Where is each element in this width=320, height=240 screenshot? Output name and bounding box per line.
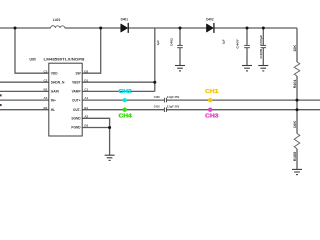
svg-text:B2: B2 xyxy=(43,88,47,92)
svg-text:OUT+: OUT+ xyxy=(72,98,81,102)
svg-text:D2: D2 xyxy=(84,69,88,73)
svg-text:IN+: IN+ xyxy=(51,98,56,102)
svg-text:2.2µF 25V: 2.2µF 25V xyxy=(167,95,179,99)
svg-text:C408: C408 xyxy=(259,49,263,59)
svg-text:OUT-: OUT- xyxy=(73,108,81,112)
svg-text:A1: A1 xyxy=(84,96,88,100)
svg-text:IN-: IN- xyxy=(51,108,55,112)
svg-text:CH2: CH2 xyxy=(119,89,132,95)
svg-text:10K: 10K xyxy=(293,44,297,52)
svg-text:SGND: SGND xyxy=(71,117,81,121)
svg-text:C410: C410 xyxy=(154,105,160,109)
svg-text:C3: C3 xyxy=(43,69,47,73)
svg-text:D1: D1 xyxy=(84,78,88,82)
svg-text:VAMP: VAMP xyxy=(72,90,82,94)
svg-text:2.2µF 25V: 2.2µF 25V xyxy=(167,105,179,109)
svg-text:R404: R404 xyxy=(293,79,297,88)
svg-text:D402: D402 xyxy=(206,18,214,22)
svg-text:C409: C409 xyxy=(154,95,160,99)
svg-text:10K: 10K xyxy=(293,120,297,128)
svg-text:GAIN: GAIN xyxy=(51,90,60,94)
svg-text:100µF: 100µF xyxy=(259,35,263,46)
svg-text:A3: A3 xyxy=(43,96,47,100)
svg-text:SW: SW xyxy=(75,71,80,75)
svg-text:1µF: 1µF xyxy=(156,40,160,46)
svg-text:C1: C1 xyxy=(84,88,88,92)
svg-text:CH3: CH3 xyxy=(205,113,218,119)
svg-text:SHDN_N: SHDN_N xyxy=(51,80,65,84)
svg-text:CH1: CH1 xyxy=(205,89,218,95)
svg-text:C2: C2 xyxy=(43,78,47,82)
svg-text:B3: B3 xyxy=(43,106,47,110)
svg-text:CH4: CH4 xyxy=(119,113,132,119)
svg-text:PGND: PGND xyxy=(71,126,81,130)
svg-text:LM48580TLX/NOPB: LM48580TLX/NOPB xyxy=(44,58,85,62)
svg-text:C402: C402 xyxy=(169,38,173,47)
svg-text:A2: A2 xyxy=(84,114,88,118)
svg-text:C407: C407 xyxy=(236,39,240,49)
svg-text:1µF: 1µF xyxy=(222,39,226,44)
svg-text:U805: U805 xyxy=(30,58,36,62)
svg-text:R405: R405 xyxy=(293,151,297,161)
svg-text:L401: L401 xyxy=(53,18,61,22)
svg-text:D401: D401 xyxy=(121,18,129,22)
svg-text:B1: B1 xyxy=(84,106,88,110)
svg-text:D3: D3 xyxy=(84,124,88,128)
svg-text:VBST: VBST xyxy=(72,80,81,84)
svg-text:VDD: VDD xyxy=(51,71,58,75)
